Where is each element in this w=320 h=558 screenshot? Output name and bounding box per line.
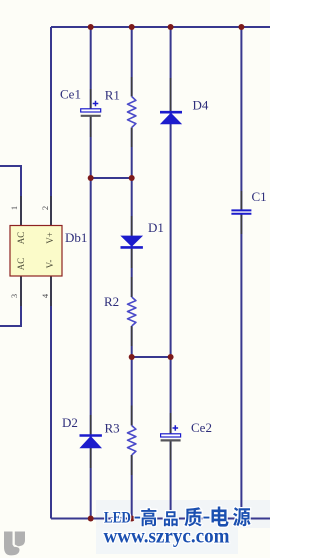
svg-text:R3: R3 (105, 421, 120, 436)
capacitor Ce1 (81, 101, 101, 116)
svg-text:AC: AC (16, 258, 26, 271)
svg-text:Db1: Db1 (65, 230, 87, 245)
wire left rail lower (50, 276, 52, 519)
wire R1/D1/R2/R3 branch (131, 27, 133, 519)
svg-text:R2: R2 (104, 294, 119, 309)
capacitor Ce2 (161, 425, 181, 440)
glyph 源 (233, 507, 250, 526)
junction bottom rail / D2 branch (88, 516, 94, 522)
resistor R3 (128, 426, 136, 456)
junction top rail / C1 branch (238, 24, 244, 30)
junction top rail / R1 branch (129, 24, 135, 30)
svg-text:Ce2: Ce2 (191, 420, 212, 435)
svg-text:R1: R1 (105, 87, 120, 102)
resistor R2 (128, 297, 136, 326)
diode D4 (160, 112, 182, 124)
svg-text:V+: V+ (45, 232, 55, 244)
svg-text:1: 1 (9, 206, 19, 210)
junction top rail / D4 branch (168, 24, 174, 30)
svg-text:D4: D4 (193, 97, 209, 112)
wire junction y=357 (132, 356, 171, 358)
junction lower wire / R2 branch (129, 354, 135, 360)
wire AC input to pin 3 (0, 276, 21, 326)
svg-text:D2: D2 (62, 415, 78, 430)
diode D1 (121, 236, 143, 247)
junction bottom rail / C1 branch (238, 516, 244, 522)
junction mid wire / R1 branch (129, 175, 135, 181)
bridge rectifier Db1 (10, 226, 62, 277)
hyphen 2 (202, 515, 210, 519)
glyph 品 (164, 511, 178, 526)
svg-text:AC: AC (16, 232, 26, 245)
logo u mark (4, 532, 25, 556)
wire top rail (51, 26, 270, 28)
junction top rail / Ce1 branch (88, 24, 94, 30)
resistor R1 (128, 97, 136, 128)
glyph 质 (184, 507, 201, 526)
wire bottom rail (51, 518, 270, 520)
capacitor C1 (231, 210, 251, 213)
wire Ce1/D2 branch (90, 27, 92, 519)
svg-text:V-: V- (45, 260, 55, 269)
svg-text:3: 3 (9, 294, 19, 298)
diode D2 (80, 436, 102, 448)
svg-text:D1: D1 (148, 220, 164, 235)
svg-text:www.szryc.com: www.szryc.com (104, 523, 230, 547)
junction mid wire / Ce1 branch (88, 175, 94, 181)
watermark LED text (104, 507, 251, 527)
svg-text:2: 2 (40, 206, 50, 210)
wire junction y=178 (91, 177, 132, 179)
wire right rail with C1 (240, 27, 242, 519)
pin stubs (dark) (21, 77, 241, 475)
junction lower wire / Ce2 branch (168, 354, 174, 360)
background tint behind bottom text (96, 500, 270, 528)
junction bottom rail / Ce2 branch (168, 516, 174, 522)
glyph 电 (211, 507, 228, 527)
svg-text:4: 4 (40, 293, 50, 298)
junction bottom rail / R3 branch (129, 516, 135, 522)
glyph 高 (141, 508, 156, 526)
wire left rail upper (50, 27, 52, 226)
hyphen 1 (134, 515, 142, 519)
wire D4/Ce2 branch (170, 27, 172, 519)
svg-text:Ce1: Ce1 (60, 87, 81, 102)
svg-text:C1: C1 (252, 189, 267, 204)
wire AC input to pin 1 (0, 166, 21, 226)
